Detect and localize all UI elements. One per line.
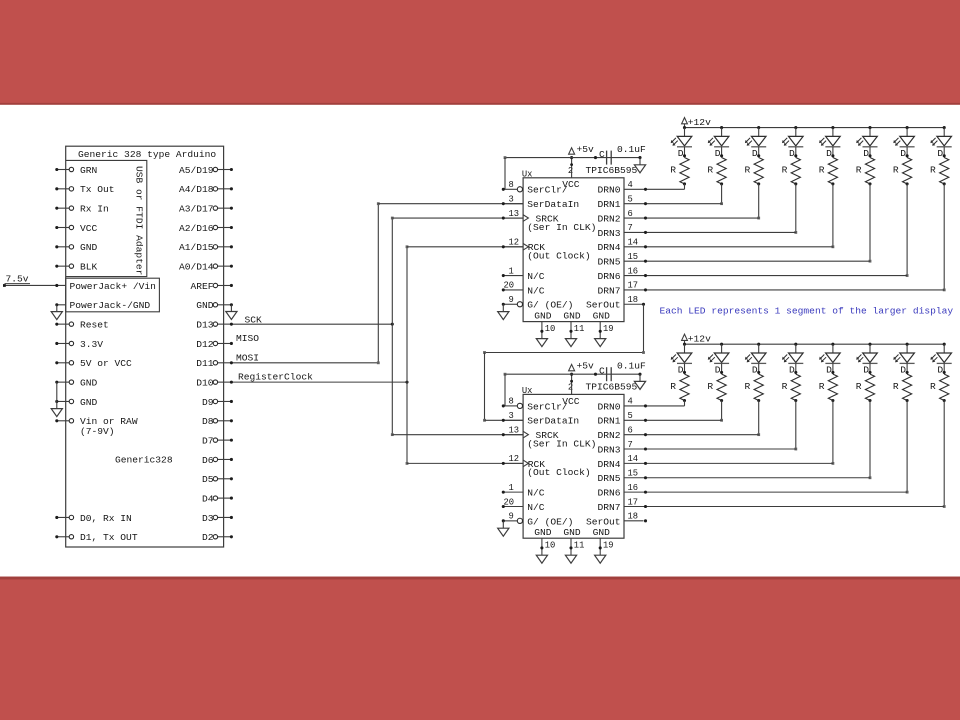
LED D (segment 0) of bank2 xyxy=(683,343,686,346)
svg-text:19: 19 xyxy=(603,324,614,334)
svg-text:DRN1: DRN1 xyxy=(597,199,620,210)
Arduino right pin A1/D15 xyxy=(218,246,232,248)
capacitor C 0.1uF for U1 xyxy=(594,156,597,159)
resistor R (segment 2) of bank1 xyxy=(754,158,763,184)
capacitor ground wire for U2 xyxy=(639,374,641,381)
svg-text:R: R xyxy=(893,381,899,392)
shift register U2 TPIC6B595 box xyxy=(523,394,624,538)
wire DRN0 of bank1 xyxy=(624,188,685,190)
svg-text:R: R xyxy=(930,381,936,392)
U2 GND pin 19 xyxy=(599,538,601,555)
ground below left GND pins xyxy=(51,409,62,417)
U2 pin 9 wire to ground xyxy=(502,521,504,528)
Arduino right pin GND xyxy=(218,304,232,306)
svg-text:13: 13 xyxy=(509,209,520,219)
resistor R (segment 7) of bank2 xyxy=(940,374,949,400)
svg-text:16: 16 xyxy=(628,483,639,493)
svg-text:17: 17 xyxy=(628,497,639,507)
capacitor C 0.1uF for U2 xyxy=(594,373,597,376)
wire DRN3 of bank2 xyxy=(624,448,796,450)
Arduino left pin Rx In xyxy=(57,207,69,209)
svg-text:R: R xyxy=(707,381,713,392)
wire RegisterClock from D10 xyxy=(231,381,407,383)
ground below U1 pin 9 xyxy=(498,312,509,320)
svg-text:GND: GND xyxy=(593,310,611,321)
svg-text:RegisterClock: RegisterClock xyxy=(238,372,313,383)
net 7.5v wire xyxy=(5,284,66,286)
svg-text:D: D xyxy=(789,148,795,159)
LED D (segment 3) of bank1 xyxy=(794,126,797,129)
wire SCK to U1 SRCK xyxy=(392,217,523,219)
svg-text:5: 5 xyxy=(628,411,633,421)
svg-text:R: R xyxy=(856,381,862,392)
svg-text:5V or VCC: 5V or VCC xyxy=(80,358,132,369)
ground below U1 pin 11 xyxy=(565,339,576,347)
svg-text:(Out Clock): (Out Clock) xyxy=(527,467,590,478)
svg-text:DRN6: DRN6 xyxy=(597,271,620,282)
svg-text:(Ser In CLK): (Ser In CLK) xyxy=(527,438,596,449)
Arduino module U-Arduino box xyxy=(66,146,224,547)
wire resistor 3 down to DRN3 row of bank2 xyxy=(795,401,797,450)
ground below U2 pin 9 xyxy=(498,528,509,536)
svg-text:D2: D2 xyxy=(202,532,214,543)
svg-text:R: R xyxy=(670,381,676,392)
Arduino right pin A0/D14 xyxy=(218,265,232,267)
svg-text:MOSI: MOSI xyxy=(236,352,259,363)
svg-text:DRN7: DRN7 xyxy=(597,502,620,513)
capacitor ground wire for U1 xyxy=(639,158,641,165)
U1 VCC pin 2 wire xyxy=(571,158,573,178)
wire resistor 1 down to DRN1 row of bank1 xyxy=(721,184,723,204)
U1 pin 9 G/ (OE/) xyxy=(503,303,517,305)
wire DRN7 of bank2 xyxy=(624,505,944,507)
ground below PowerJack- xyxy=(51,312,62,320)
svg-text:DRN2: DRN2 xyxy=(597,430,620,441)
wire DRN2 of bank2 xyxy=(624,434,759,436)
svg-text:D5: D5 xyxy=(202,474,214,485)
svg-text:D3: D3 xyxy=(202,513,214,524)
svg-text:GND: GND xyxy=(196,300,214,311)
wire resistor 0 down to DRN0 row of bank1 xyxy=(684,184,686,189)
wire DRN2 of bank1 xyxy=(624,217,759,219)
wire DRN6 of bank1 xyxy=(624,275,907,277)
wire resistor 7 down to DRN7 row of bank2 xyxy=(943,401,945,507)
svg-text:A3/D17: A3/D17 xyxy=(179,204,214,215)
svg-text:N/C: N/C xyxy=(527,285,545,296)
svg-text:+5v: +5v xyxy=(577,144,595,155)
svg-text:D: D xyxy=(863,364,869,375)
svg-text:D: D xyxy=(715,148,721,159)
svg-text:N/C: N/C xyxy=(527,488,545,499)
wire DRN5 of bank1 xyxy=(624,260,870,262)
wire DRN0 of bank2 xyxy=(624,405,685,407)
svg-text:DRN0: DRN0 xyxy=(597,401,620,412)
U1 GND pin 10 xyxy=(541,322,543,339)
Arduino right pin D11 xyxy=(218,362,232,364)
ground below U2 pin 11 xyxy=(565,555,576,563)
svg-text:D: D xyxy=(900,364,906,375)
U2 pin 3 SerDataIn xyxy=(503,419,523,421)
svg-text:DRN3: DRN3 xyxy=(597,444,620,455)
svg-text:7.5v: 7.5v xyxy=(6,274,29,285)
Arduino left pin Reset xyxy=(57,323,69,325)
svg-text:D11: D11 xyxy=(196,358,214,369)
Arduino right pin A4/D18 xyxy=(218,188,232,190)
U1 pin 12 RCK clock xyxy=(503,246,523,248)
Arduino right pin A2/D16 xyxy=(218,226,232,228)
shift register U1 TPIC6B595 box xyxy=(523,178,624,322)
resistor R (segment 3) of bank1 xyxy=(791,158,800,184)
svg-text:17: 17 xyxy=(628,281,639,291)
svg-text:TPIC6B595: TPIC6B595 xyxy=(586,165,638,176)
svg-text:20: 20 xyxy=(504,281,515,291)
Arduino right pin D7 xyxy=(218,439,232,441)
bottom red band xyxy=(0,577,960,720)
svg-text:SerClr/: SerClr/ xyxy=(527,401,568,412)
Arduino right pin D2 xyxy=(218,536,232,538)
resistor R (segment 0) of bank2 xyxy=(680,374,689,400)
wire DRN4 of bank1 xyxy=(624,246,833,248)
U1 pin 13 SRCK clock xyxy=(503,217,523,219)
svg-text:8: 8 xyxy=(509,180,514,190)
svg-text:PowerJack-/GND: PowerJack-/GND xyxy=(70,300,151,311)
svg-text:10: 10 xyxy=(545,541,556,551)
svg-text:3.3V: 3.3V xyxy=(80,339,103,350)
resistor R (segment 7) of bank1 xyxy=(940,158,949,184)
Arduino right pin D10 xyxy=(218,381,232,383)
U1 pin 9 wire to ground xyxy=(502,304,504,311)
wire DRN7 of bank1 xyxy=(624,289,944,291)
LED D (segment 7) of bank1 xyxy=(943,126,946,129)
resistor R (segment 6) of bank2 xyxy=(902,374,911,400)
Arduino left pin 3.3V xyxy=(57,342,69,344)
wire MOSI from D11 xyxy=(231,362,378,364)
U2 +5v rail xyxy=(505,373,640,375)
svg-text:DRN7: DRN7 xyxy=(597,285,620,296)
svg-text:D7: D7 xyxy=(202,436,214,447)
wire DRN1 of bank2 xyxy=(624,419,722,421)
U1 GND pin 11 xyxy=(570,322,572,339)
svg-text:PowerJack+ /Vin: PowerJack+ /Vin xyxy=(70,281,156,292)
svg-text:SerOut: SerOut xyxy=(586,516,621,527)
svg-text:R: R xyxy=(745,381,751,392)
svg-text:19: 19 xyxy=(603,541,614,551)
LED D (segment 6) of bank2 xyxy=(906,343,909,346)
Arduino right pin D4 xyxy=(218,497,232,499)
svg-text:(Ser In CLK): (Ser In CLK) xyxy=(527,222,596,233)
svg-text:A0/D14: A0/D14 xyxy=(179,262,214,273)
svg-text:3: 3 xyxy=(509,411,514,421)
Arduino right pin D12 xyxy=(218,342,232,344)
LED D (segment 3) of bank2 xyxy=(794,343,797,346)
Arduino right pin A3/D17 xyxy=(218,207,232,209)
U2 pin 12 RCK clock xyxy=(503,462,523,464)
Arduino left pin VCC xyxy=(57,226,69,228)
svg-text:3: 3 xyxy=(509,194,514,204)
svg-text:2: 2 xyxy=(568,166,573,176)
Arduino right pin AREF xyxy=(218,284,232,286)
LED D (segment 1) of bank1 xyxy=(720,126,723,129)
wire resistor 0 down to DRN0 row of bank2 xyxy=(684,401,686,406)
Arduino left pin Vin or RAW xyxy=(57,420,69,422)
U2 GND pin 11 xyxy=(570,538,572,555)
LED D (segment 6) of bank1 xyxy=(906,126,909,129)
svg-text:D: D xyxy=(678,364,684,375)
wire GND-GND join on left xyxy=(56,382,58,408)
svg-text:12: 12 xyxy=(509,454,520,464)
svg-text:GND: GND xyxy=(80,242,98,253)
svg-text:D: D xyxy=(863,148,869,159)
power +5v symbol for U1 xyxy=(569,148,575,154)
Arduino right pin D13 xyxy=(218,323,232,325)
wire resistor 2 down to DRN2 row of bank2 xyxy=(758,401,760,435)
svg-text:MISO: MISO xyxy=(236,333,259,344)
Arduino right pin D8 xyxy=(218,420,232,422)
wire DRN3 of bank1 xyxy=(624,231,796,233)
Arduino left pin D1, Tx OUT xyxy=(57,536,69,538)
svg-text:9: 9 xyxy=(509,295,514,305)
svg-text:D12: D12 xyxy=(196,339,214,350)
svg-text:DRN6: DRN6 xyxy=(597,488,620,499)
svg-text:GND: GND xyxy=(563,310,581,321)
U1 pin 1 N/C xyxy=(503,275,523,277)
svg-text:D: D xyxy=(678,148,684,159)
Arduino left pin BLK xyxy=(57,265,69,267)
wire resistor 2 down to DRN2 row of bank1 xyxy=(758,184,760,218)
wire SCK riser to U1/U2 SRCK xyxy=(391,218,393,435)
svg-text:G/ (OE/): G/ (OE/) xyxy=(527,300,573,311)
svg-text:6: 6 xyxy=(628,425,633,435)
svg-text:R: R xyxy=(819,164,825,175)
LED D (segment 5) of bank2 xyxy=(868,343,871,346)
resistor R (segment 4) of bank1 xyxy=(828,158,837,184)
svg-text:1: 1 xyxy=(509,266,514,276)
U2 pin 1 N/C xyxy=(503,491,523,493)
wire RegisterClock riser to U1/U2 RCK xyxy=(406,247,408,464)
svg-text:12: 12 xyxy=(509,238,520,248)
svg-text:7: 7 xyxy=(628,440,633,450)
svg-text:R: R xyxy=(745,164,751,175)
svg-text:DRN5: DRN5 xyxy=(597,473,620,484)
svg-text:TPIC6B595: TPIC6B595 xyxy=(586,381,638,392)
power +5v symbol for U2 xyxy=(569,364,575,370)
svg-text:N/C: N/C xyxy=(527,502,545,513)
wire RegisterClock to U1 RCK xyxy=(407,246,523,248)
svg-text:8: 8 xyxy=(509,397,514,407)
svg-text:SerClr/: SerClr/ xyxy=(527,185,568,196)
resistor R (segment 5) of bank1 xyxy=(865,158,874,184)
wire RegisterClock to U2 RCK xyxy=(407,462,523,464)
svg-text:G/ (OE/): G/ (OE/) xyxy=(527,516,573,527)
U1 pin 8 SerClr/ xyxy=(503,188,517,190)
svg-text:R: R xyxy=(707,164,713,175)
svg-text:15: 15 xyxy=(628,469,639,479)
svg-text:0.1uF: 0.1uF xyxy=(617,144,646,155)
wire resistor 4 down to DRN4 row of bank2 xyxy=(832,401,834,464)
U1 pin 20 N/C xyxy=(503,289,523,291)
LED D (segment 7) of bank2 xyxy=(943,343,946,346)
svg-text:GRN: GRN xyxy=(80,165,97,176)
Arduino right pin D3 xyxy=(218,516,232,518)
svg-text:+12v: +12v xyxy=(688,117,711,128)
svg-text:1: 1 xyxy=(509,483,514,493)
wire DRN5 of bank2 xyxy=(624,477,870,479)
Arduino left pin 5V or VCC xyxy=(57,362,69,364)
svg-text:7: 7 xyxy=(628,223,633,233)
svg-text:GND: GND xyxy=(534,527,552,538)
svg-text:14: 14 xyxy=(628,238,639,248)
svg-text:DRN4: DRN4 xyxy=(597,242,620,253)
svg-text:D9: D9 xyxy=(202,397,214,408)
svg-text:A4/D18: A4/D18 xyxy=(179,184,214,195)
svg-text:D: D xyxy=(937,148,943,159)
svg-text:USB or FTDI Adapter: USB or FTDI Adapter xyxy=(134,166,145,275)
svg-text:13: 13 xyxy=(509,425,520,435)
svg-text:A2/D16: A2/D16 xyxy=(179,223,214,234)
svg-text:R: R xyxy=(782,381,788,392)
U1 pin 3 SerDataIn xyxy=(503,203,523,205)
svg-text:D: D xyxy=(752,364,758,375)
wire right GND to ground xyxy=(230,305,232,312)
wire SCK from D13 xyxy=(231,323,392,325)
svg-text:N/C: N/C xyxy=(527,271,545,282)
svg-text:0.1uF: 0.1uF xyxy=(617,361,646,372)
svg-text:16: 16 xyxy=(628,266,639,276)
svg-text:4: 4 xyxy=(628,397,633,407)
resistor R (segment 5) of bank2 xyxy=(865,374,874,400)
Arduino left pin Tx Out xyxy=(57,188,69,190)
U2 pin 8 SerClr/ xyxy=(503,405,517,407)
wire SCK to U2 SRCK xyxy=(392,434,523,436)
svg-text:15: 15 xyxy=(628,252,639,262)
svg-text:18: 18 xyxy=(628,295,639,305)
svg-text:R: R xyxy=(782,164,788,175)
U2 SerOut stub pin 18 xyxy=(624,520,644,522)
svg-text:Each LED represents 1 segment: Each LED represents 1 segment of the lar… xyxy=(660,305,954,316)
Arduino left pin GRN xyxy=(57,169,69,171)
wire U1 SerOut to U2 SerDataIn xyxy=(624,303,644,305)
wire DRN1 of bank1 xyxy=(624,203,722,205)
svg-text:GND: GND xyxy=(80,397,98,408)
U2 pin 20 N/C xyxy=(503,505,523,507)
ground below U2 pin 10 xyxy=(536,555,547,563)
svg-text:20: 20 xyxy=(504,497,515,507)
wire DRN4 of bank2 xyxy=(624,462,833,464)
svg-text:D1, Tx OUT: D1, Tx OUT xyxy=(80,532,138,543)
svg-text:Generic328: Generic328 xyxy=(115,455,173,466)
power +12v symbol bank2 xyxy=(684,340,686,344)
power +12v symbol bank1 xyxy=(684,124,686,128)
svg-text:D: D xyxy=(900,148,906,159)
svg-text:18: 18 xyxy=(628,512,639,522)
resistor R (segment 1) of bank1 xyxy=(717,158,726,184)
svg-text:GND: GND xyxy=(593,527,611,538)
LED D (segment 2) of bank1 xyxy=(757,126,760,129)
svg-text:10: 10 xyxy=(545,324,556,334)
Arduino left pin GND xyxy=(57,246,69,248)
svg-text:DRN4: DRN4 xyxy=(597,459,620,470)
wire resistor 5 down to DRN5 row of bank2 xyxy=(869,401,871,478)
Arduino right pin D9 xyxy=(218,400,232,402)
svg-text:D4: D4 xyxy=(202,494,214,505)
svg-text:14: 14 xyxy=(628,454,639,464)
LED D (segment 4) of bank2 xyxy=(831,343,834,346)
svg-text:(Out Clock): (Out Clock) xyxy=(527,251,590,262)
svg-text:R: R xyxy=(893,164,899,175)
resistor R (segment 3) of bank2 xyxy=(791,374,800,400)
svg-text:A1/D15: A1/D15 xyxy=(179,242,214,253)
svg-text:Rx In: Rx In xyxy=(80,204,109,215)
svg-text:+12v: +12v xyxy=(688,333,711,344)
U2 SerClr wire to +5v xyxy=(504,374,506,406)
svg-text:A5/D19: A5/D19 xyxy=(179,165,214,176)
svg-text:D: D xyxy=(826,364,832,375)
U1 GND pin 19 xyxy=(599,322,601,339)
wire MOSI riser to U1 SerDataIn xyxy=(377,204,379,363)
wire resistor 1 down to DRN1 row of bank2 xyxy=(721,401,723,421)
Arduino right pin D5 xyxy=(218,478,232,480)
svg-text:VCC: VCC xyxy=(80,223,98,234)
resistor R (segment 6) of bank1 xyxy=(902,158,911,184)
svg-text:DRN2: DRN2 xyxy=(597,213,620,224)
svg-text:Ux: Ux xyxy=(522,386,533,396)
svg-text:GND: GND xyxy=(534,310,552,321)
svg-text:R: R xyxy=(819,381,825,392)
svg-text:D: D xyxy=(789,364,795,375)
svg-text:D: D xyxy=(937,364,943,375)
U2 VCC pin 2 wire xyxy=(571,374,573,394)
U2 pin 13 SRCK clock xyxy=(503,434,523,436)
ground below U1 pin 19 xyxy=(595,339,606,347)
power +12v rail for bank1 xyxy=(685,127,945,129)
svg-text:D: D xyxy=(752,148,758,159)
LED D (segment 4) of bank1 xyxy=(831,126,834,129)
svg-text:(7-9V): (7-9V) xyxy=(80,426,115,437)
svg-text:C: C xyxy=(599,149,605,160)
wire resistor 6 down to DRN6 row of bank1 xyxy=(906,184,908,276)
svg-text:SerDataIn: SerDataIn xyxy=(527,199,579,210)
ground below right GND pin xyxy=(226,312,237,320)
wire PowerJack- stub xyxy=(57,304,66,306)
svg-text:11: 11 xyxy=(574,541,585,551)
U2 GND pin 10 xyxy=(541,538,543,555)
USB or FTDI Adapter sub-box xyxy=(66,160,147,276)
svg-text:R: R xyxy=(856,164,862,175)
svg-text:R: R xyxy=(670,164,676,175)
svg-text:R: R xyxy=(930,164,936,175)
svg-text:DRN0: DRN0 xyxy=(597,185,620,196)
svg-text:GND: GND xyxy=(80,378,98,389)
svg-text:Reset: Reset xyxy=(80,320,109,331)
svg-text:Ux: Ux xyxy=(522,170,533,180)
resistor R (segment 0) of bank1 xyxy=(680,158,689,184)
svg-text:Generic 328 type Arduino: Generic 328 type Arduino xyxy=(78,149,216,160)
svg-text:AREF: AREF xyxy=(190,281,213,292)
wire resistor 6 down to DRN6 row of bank2 xyxy=(906,401,908,493)
ground below U1 pin 10 xyxy=(536,339,547,347)
resistor R (segment 2) of bank2 xyxy=(754,374,763,400)
wire resistor 7 down to DRN7 row of bank1 xyxy=(943,184,945,290)
Arduino left pin D0, Rx IN xyxy=(57,516,69,518)
svg-text:+5v: +5v xyxy=(577,361,595,372)
svg-text:DRN3: DRN3 xyxy=(597,228,620,239)
svg-text:5: 5 xyxy=(628,194,633,204)
svg-text:D8: D8 xyxy=(202,416,214,427)
wire resistor 5 down to DRN5 row of bank1 xyxy=(869,184,871,261)
svg-text:D: D xyxy=(715,364,721,375)
svg-text:DRN1: DRN1 xyxy=(597,416,620,427)
ground below U2 pin 19 xyxy=(595,555,606,563)
